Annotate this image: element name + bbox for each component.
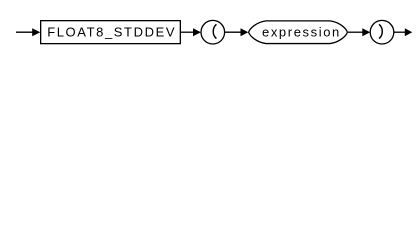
svg-text:expression: expression [262,24,341,39]
svg-text:FLOAT8_STDDEV: FLOAT8_STDDEV [47,24,176,39]
